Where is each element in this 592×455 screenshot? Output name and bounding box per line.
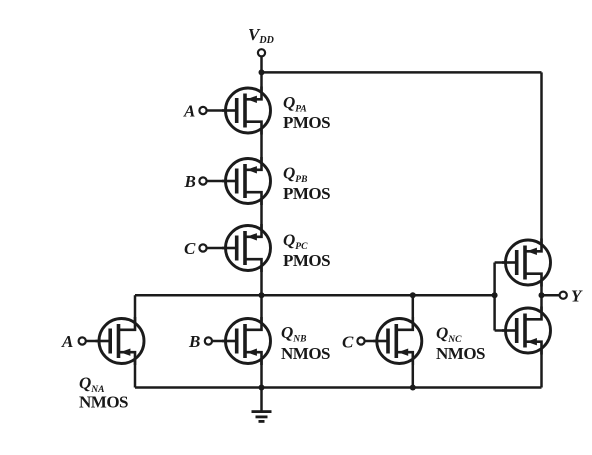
svg-text:QNC: QNC: [436, 324, 462, 346]
svg-text:A: A: [61, 332, 73, 351]
svg-text:QPB: QPB: [283, 164, 307, 186]
svg-text:C: C: [342, 333, 354, 352]
svg-text:VDD: VDD: [248, 25, 274, 46]
svg-text:B: B: [188, 332, 200, 351]
svg-text:PMOS: PMOS: [283, 251, 330, 270]
svg-text:Y: Y: [571, 287, 583, 306]
svg-text:NMOS: NMOS: [281, 344, 330, 363]
svg-text:NMOS: NMOS: [436, 344, 485, 363]
svg-text:B: B: [184, 172, 196, 191]
svg-text:NMOS: NMOS: [79, 393, 128, 412]
svg-text:A: A: [183, 102, 195, 121]
svg-text:C: C: [184, 239, 196, 258]
svg-text:PMOS: PMOS: [283, 113, 330, 132]
svg-text:QPC: QPC: [283, 231, 308, 253]
svg-text:QNB: QNB: [281, 323, 306, 345]
svg-text:QPA: QPA: [283, 93, 307, 115]
svg-text:PMOS: PMOS: [283, 184, 330, 203]
